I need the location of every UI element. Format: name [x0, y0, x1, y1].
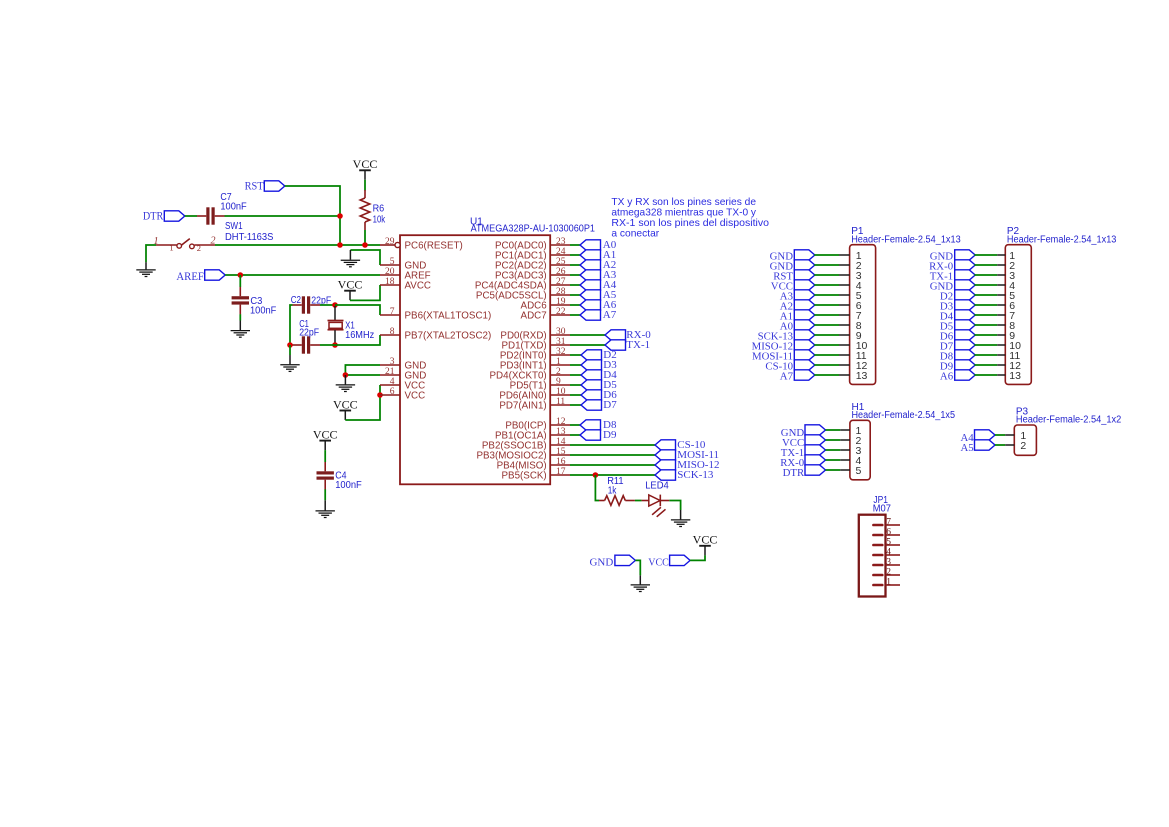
- label P1 Header-Female-2.54_1x13: [851, 226, 961, 245]
- wire SW1 to PC6 reset: [215, 244, 380, 246]
- net flag D5: [570, 379, 617, 391]
- wire C1 ground column: [289, 345, 291, 355]
- svg-text:Header-Female-2.54_1x5: Header-Female-2.54_1x5: [852, 410, 956, 421]
- ground C3: [231, 321, 250, 338]
- net flag TX-1 (P2 pin 3): [930, 270, 975, 283]
- junction crystal top: [332, 302, 338, 308]
- svg-text:9: 9: [556, 377, 561, 387]
- label SW1 DHT-1163S: [225, 221, 274, 243]
- svg-text:VCC: VCC: [693, 533, 718, 547]
- svg-text:14: 14: [556, 437, 566, 447]
- pin 7 JP1: [873, 518, 900, 528]
- net flag A4: [570, 279, 617, 291]
- net flag A1: [570, 249, 616, 261]
- svg-text:18: 18: [385, 277, 395, 287]
- svg-text:5: 5: [390, 257, 395, 267]
- svg-text:23: 23: [556, 237, 566, 247]
- label C2 22pF: [291, 295, 331, 306]
- net flag A0: [570, 239, 617, 251]
- svg-text:a conectar: a conectar: [611, 229, 659, 240]
- junction crystal bottom: [332, 342, 338, 348]
- wire H1 pin 5: [826, 469, 850, 471]
- svg-text:27: 27: [556, 277, 566, 287]
- wire P2 pin 5: [974, 294, 1005, 296]
- svg-text:6: 6: [390, 387, 395, 397]
- junction C1 left: [287, 342, 293, 348]
- pin 17 PB5(SCK) U1: [502, 467, 570, 481]
- wire SCK to R11: [595, 475, 599, 501]
- label R11 1k: [607, 476, 624, 497]
- wire AREF junction down: [239, 275, 241, 287]
- wire P3 pin 1: [995, 434, 1014, 436]
- svg-text:4: 4: [390, 377, 395, 387]
- capacitor C3: [232, 287, 249, 315]
- svg-text:A7: A7: [780, 371, 794, 383]
- power flag VCC (bottom): [693, 533, 718, 556]
- svg-text:M07: M07: [873, 504, 892, 515]
- label P2 Header-Female-2.54_1x13: [1007, 226, 1117, 245]
- pin 1 PD3(INT1) U1: [500, 357, 570, 371]
- crystal X1: [328, 306, 344, 344]
- pin 2 PD4(XCKT0) U1: [490, 367, 570, 381]
- net flag A4 (P3 pin 1): [960, 430, 995, 444]
- pin 25 PC2(ADC2) U1: [495, 257, 570, 271]
- net flag A3: [570, 269, 617, 281]
- label U1 ATMEGA328P-AU-1030060P1: [470, 217, 595, 235]
- svg-text:ATMEGA328P-AU-1030060P1: ATMEGA328P-AU-1030060P1: [471, 224, 596, 235]
- pin 13 PB1(OC1A) U1: [495, 427, 570, 441]
- pin 21 GND U1: [380, 367, 426, 381]
- pin 3 JP1: [873, 558, 900, 568]
- svg-text:13: 13: [556, 427, 566, 437]
- capacitor C7: [197, 207, 225, 224]
- wire P2 pin 3: [974, 274, 1005, 276]
- ground LED4: [671, 510, 690, 527]
- wire pin3 GND: [345, 365, 380, 375]
- net flag GND (bottom): [590, 555, 636, 569]
- label R6 10k: [373, 204, 386, 226]
- svg-text:4: 4: [886, 548, 891, 558]
- svg-text:32: 32: [556, 347, 566, 357]
- ground pins 3 21: [336, 375, 355, 392]
- wire H1 pin 1: [826, 429, 850, 431]
- label C7 100nF: [220, 192, 246, 212]
- net flag TX-1 (H1 pin 3): [781, 445, 826, 459]
- label C4 100nF: [335, 471, 362, 491]
- svg-text:2: 2: [1020, 440, 1026, 452]
- wire VCC to pins 4 6: [345, 385, 380, 420]
- net flag GND (H1 pin 1): [781, 425, 826, 439]
- svg-text:100nF: 100nF: [250, 305, 276, 316]
- svg-text:PB7(XTAL2TOSC2): PB7(XTAL2TOSC2): [405, 330, 492, 341]
- connector P1 body: [850, 245, 876, 385]
- svg-text:1: 1: [556, 357, 561, 367]
- pin 32 PD2(INT0) U1: [500, 347, 570, 361]
- pin 6 VCC U1: [380, 387, 425, 401]
- pin 5 GND U1: [380, 257, 426, 271]
- svg-text:AREF: AREF: [176, 271, 204, 283]
- wire P2 pin 9: [974, 334, 1005, 336]
- pin 27 PC4(ADC4SDA) U1: [475, 277, 570, 291]
- pin 1 JP1: [873, 578, 900, 588]
- net flag D7: [570, 399, 617, 411]
- net flag CS-10: [570, 439, 706, 451]
- svg-text:VCC: VCC: [648, 557, 669, 569]
- net flag MOSI-11 (P1 pin 11): [752, 350, 815, 363]
- junction C7/RST: [337, 213, 343, 219]
- net flag D3: [570, 359, 617, 371]
- svg-text:D9: D9: [603, 429, 617, 441]
- svg-text:22pF: 22pF: [299, 328, 319, 339]
- switch SW1: [156, 239, 215, 249]
- wire crystal bottom to PB7: [335, 335, 380, 345]
- net flag D5 (P2 pin 8): [940, 320, 975, 333]
- net flag AREF: [176, 270, 225, 283]
- svg-text:16MHz: 16MHz: [345, 330, 374, 341]
- svg-text:Header-Female-2.54_1x13: Header-Female-2.54_1x13: [1007, 234, 1117, 245]
- svg-text:26: 26: [556, 267, 566, 277]
- wire VCC to AVCC pin18: [350, 285, 380, 300]
- svg-text:6: 6: [886, 528, 891, 538]
- svg-text:TX y RX son los pines series d: TX y RX son los pines series de: [611, 197, 756, 208]
- label C1 22pF: [299, 319, 319, 338]
- net flag VCC (H1 pin 2): [782, 435, 826, 449]
- wire AREF to pin 20: [225, 274, 380, 276]
- svg-text:Header-Female-2.54_1x13: Header-Female-2.54_1x13: [851, 234, 961, 245]
- net flag D6 (P2 pin 9): [940, 330, 975, 343]
- capacitor C4: [317, 462, 334, 490]
- net flag A0 (P1 pin 8): [780, 320, 815, 333]
- svg-text:A5: A5: [960, 442, 973, 454]
- wire P2 pin 13: [974, 374, 1005, 376]
- wire H1 pin 4: [826, 459, 850, 461]
- pin 9 PD5(T1) U1: [510, 377, 570, 391]
- power flag VCC (C4): [313, 427, 338, 450]
- pin 18 AVCC U1: [380, 277, 431, 291]
- svg-text:DTR: DTR: [783, 467, 805, 479]
- svg-text:24: 24: [556, 247, 566, 257]
- connector P3 body: [1014, 425, 1036, 455]
- net flag D4 (P2 pin 7): [940, 310, 975, 323]
- net flag D9 (P2 pin 12): [940, 360, 975, 373]
- wire crystal top to PB6: [335, 305, 380, 315]
- connector H1 body: [850, 420, 870, 480]
- svg-text:1: 1: [169, 243, 173, 253]
- svg-text:DTR: DTR: [143, 211, 164, 223]
- svg-text:100nF: 100nF: [220, 201, 246, 212]
- svg-text:19: 19: [556, 297, 566, 307]
- power flag VCC (pins 4 6): [333, 397, 358, 420]
- wire P1 pin 9: [814, 334, 849, 336]
- pin 20 AREF U1: [380, 267, 431, 281]
- pin 5 JP1: [873, 538, 900, 548]
- wire C3 to ground: [239, 314, 241, 320]
- svg-text:15: 15: [556, 447, 566, 457]
- ground pin5: [341, 250, 360, 267]
- LED LED4: [642, 495, 670, 517]
- pin 3 GND U1: [380, 357, 426, 371]
- svg-text:13: 13: [856, 370, 868, 382]
- net flag MISO-12 (P1 pin 10): [752, 340, 815, 353]
- svg-text:28: 28: [556, 287, 566, 297]
- wire R11 to LED4: [635, 500, 642, 502]
- svg-text:11: 11: [556, 397, 565, 407]
- wire H1 pin 2: [826, 439, 850, 441]
- net flag RST (P1 pin 3): [773, 270, 815, 283]
- net flag VCC (P1 pin 4): [771, 280, 815, 293]
- wire P1 pin 3: [814, 274, 849, 276]
- svg-text:TX-1: TX-1: [626, 339, 650, 351]
- pin 19 ADC6 U1: [521, 297, 570, 311]
- svg-text:R6: R6: [373, 204, 385, 215]
- svg-text:ADC7: ADC7: [521, 310, 547, 321]
- wire GND flag to ground: [635, 560, 640, 575]
- wire P1 pin 10: [814, 344, 849, 346]
- label P3 Header-Female-2.54_1x2: [1016, 407, 1122, 426]
- svg-text:10k: 10k: [373, 214, 386, 225]
- wire P2 pin 1: [974, 254, 1005, 256]
- svg-text:PD7(AIN1): PD7(AIN1): [499, 400, 546, 411]
- junction AREF C3: [238, 272, 244, 278]
- net flag MOSI-11: [570, 449, 719, 461]
- label X1 16MHz: [345, 320, 374, 341]
- wire P2 pin 6: [974, 304, 1005, 306]
- svg-text:100nF: 100nF: [335, 480, 362, 491]
- pin 24 PC1(ADC1) U1: [495, 247, 570, 261]
- wire P2 pin 4: [974, 284, 1005, 286]
- svg-text:2: 2: [211, 235, 216, 246]
- wire P1 pin 12: [814, 364, 849, 366]
- wire R6 to reset net: [364, 230, 366, 245]
- wire VCC to R6: [364, 180, 366, 191]
- pin 11 PD7(AIN1) U1: [499, 397, 570, 411]
- power flag VCC (R6 pull-up): [353, 157, 378, 180]
- net flag A1 (P1 pin 7): [780, 310, 815, 323]
- svg-text:VCC: VCC: [313, 427, 338, 441]
- pin 12 PB0(ICP) U1: [505, 417, 570, 431]
- label C3 100nF: [250, 296, 276, 316]
- net flag RX-0 (P2 pin 2): [929, 260, 975, 273]
- net flag A5 (P3 pin 2): [960, 440, 995, 454]
- wire P2 pin 11: [974, 354, 1005, 356]
- ground GND flag: [631, 575, 650, 591]
- svg-text:A7: A7: [603, 309, 617, 321]
- pin 8 PB7(XTAL2TOSC2) U1: [380, 327, 491, 341]
- svg-text:31: 31: [556, 337, 566, 347]
- net flag RX-0 (H1 pin 4): [780, 455, 825, 469]
- svg-text:21: 21: [385, 367, 395, 377]
- svg-text:16: 16: [556, 457, 566, 467]
- svg-text:VCC: VCC: [353, 157, 378, 171]
- pin 26 PC3(ADC3) U1: [495, 267, 570, 281]
- wire P2 pin 2: [974, 264, 1005, 266]
- wire C7 to reset vertical: [225, 215, 341, 217]
- net flag D2 (P2 pin 5): [940, 290, 975, 303]
- wire LED4 to ground: [669, 501, 680, 511]
- svg-text:RX-1 son los pines del disposi: RX-1 son los pines del dispositivo: [611, 218, 769, 229]
- svg-text:VCC: VCC: [333, 397, 358, 411]
- junction GND pins: [343, 372, 349, 378]
- junction VCC pin6: [377, 392, 383, 398]
- net flag MISO-12: [570, 459, 719, 471]
- svg-text:LED4: LED4: [645, 481, 669, 492]
- net flag D6: [570, 389, 617, 401]
- wire pin21 GND: [345, 374, 380, 376]
- wire P1 pin 4: [814, 284, 849, 286]
- svg-text:SCK-13: SCK-13: [677, 469, 714, 481]
- net flag A6 (P2 pin 13): [940, 370, 975, 383]
- pin 31 PD1(TXD) U1: [502, 337, 570, 351]
- net flag GND (P2 pin 1): [930, 250, 976, 263]
- wire P1 pin 8: [814, 324, 849, 326]
- svg-text:PB6(XTAL1TOSC1): PB6(XTAL1TOSC1): [405, 310, 492, 321]
- net flag D8: [570, 419, 617, 431]
- svg-text:5: 5: [856, 465, 862, 477]
- pin 30 PD0(RXD) U1: [500, 327, 570, 341]
- svg-text:20: 20: [385, 267, 395, 277]
- wire P2 pin 10: [974, 344, 1005, 346]
- net flag TX-1: [570, 339, 650, 351]
- wire P1 pin 6: [814, 304, 849, 306]
- wire VCC flag to power: [690, 555, 705, 560]
- wire P1 pin 11: [814, 354, 849, 356]
- wire P1 pin 5: [814, 294, 849, 296]
- capacitor C1: [293, 336, 321, 353]
- capacitor C2: [293, 296, 321, 313]
- IC U1 body: [400, 235, 550, 484]
- net flag A3 (P1 pin 5): [780, 290, 815, 303]
- pin 15 PB3(MOSIOC2) U1: [476, 447, 570, 461]
- svg-text:5: 5: [886, 538, 891, 548]
- svg-text:AVCC: AVCC: [405, 280, 432, 291]
- svg-text:A6: A6: [940, 371, 954, 383]
- wire P2 pin 7: [974, 314, 1005, 316]
- wire RST to vertical: [285, 186, 340, 245]
- svg-text:2: 2: [197, 243, 201, 253]
- svg-text:PC6(RESET): PC6(RESET): [405, 240, 463, 251]
- net flag RST: [245, 181, 285, 193]
- net flag A2: [570, 259, 616, 271]
- net flag A7 (P1 pin 13): [780, 370, 815, 383]
- pin 4 JP1: [873, 548, 900, 558]
- svg-text:VCC: VCC: [338, 278, 363, 292]
- junction SCK LED branch: [593, 472, 599, 478]
- power flag VCC (AVCC): [338, 278, 363, 301]
- net flag D7 (P2 pin 10): [940, 340, 975, 353]
- svg-text:atmega328 mientras que TX-0 y: atmega328 mientras que TX-0 y: [611, 208, 756, 219]
- connector JP1 body: [859, 515, 886, 597]
- pin 29 PC6(RESET) U1: [380, 237, 463, 251]
- pin 23 PC0(ADC0) U1: [495, 237, 570, 251]
- net flag D4: [570, 369, 617, 381]
- svg-text:13: 13: [1009, 370, 1021, 382]
- pin 14 PB2(SSOC1B) U1: [482, 437, 570, 451]
- net flag SCK-13 (P1 pin 9): [758, 330, 815, 343]
- net flag CS-10 (P1 pin 12): [765, 360, 814, 373]
- svg-text:12: 12: [556, 417, 566, 427]
- svg-text:17: 17: [556, 467, 566, 477]
- label JP1 M07: [873, 495, 892, 514]
- svg-text:1: 1: [886, 578, 891, 588]
- note text TX RX: [611, 197, 769, 240]
- wire H1 pin 3: [826, 449, 850, 451]
- net flag SCK-13: [570, 469, 714, 481]
- svg-text:3: 3: [390, 357, 395, 367]
- resistor R11: [599, 496, 635, 506]
- svg-text:7: 7: [886, 518, 891, 528]
- wire P1 pin 7: [814, 314, 849, 316]
- wire P1 pin 1: [814, 254, 849, 256]
- svg-text:22: 22: [556, 307, 566, 317]
- svg-text:SW1: SW1: [225, 221, 243, 232]
- svg-text:7: 7: [390, 307, 395, 317]
- net flag D2: [570, 349, 617, 361]
- pin 2 JP1: [873, 568, 900, 578]
- svg-text:Header-Female-2.54_1x2: Header-Female-2.54_1x2: [1016, 415, 1122, 426]
- wire C4 to ground: [324, 489, 326, 500]
- wire P1 pin 13: [814, 374, 849, 376]
- svg-text:8: 8: [390, 327, 395, 337]
- junction reset vertical: [337, 242, 343, 248]
- svg-text:GND: GND: [590, 557, 614, 569]
- svg-text:DHT-1163S: DHT-1163S: [225, 232, 274, 243]
- svg-text:RST: RST: [245, 181, 264, 193]
- net flag GND (P1 pin 2): [770, 260, 815, 273]
- svg-text:D7: D7: [603, 399, 617, 411]
- wire VCC to C4: [324, 450, 326, 462]
- net flag GND (P2 pin 4): [930, 280, 976, 293]
- resistor R6: [360, 190, 370, 230]
- ground SW1: [136, 262, 155, 276]
- net flag GND (P1 pin 1): [770, 250, 815, 263]
- net flag A7: [570, 309, 617, 321]
- svg-text:1k: 1k: [608, 486, 618, 497]
- junction reset R6: [362, 242, 368, 248]
- svg-text:25: 25: [556, 257, 566, 267]
- net flag VCC (bottom): [648, 555, 690, 569]
- label H1 Header-Female-2.54_1x5: [852, 402, 956, 421]
- svg-text:10: 10: [556, 387, 566, 397]
- net flag D3 (P2 pin 6): [940, 300, 975, 313]
- wire P2 pin 8: [974, 324, 1005, 326]
- svg-text:VCC: VCC: [405, 390, 426, 401]
- net flag A6: [570, 299, 617, 311]
- wire C2 right to crystal top: [320, 304, 335, 306]
- ground C1 C2: [280, 355, 299, 371]
- pin 22 ADC7 U1: [521, 307, 570, 321]
- net flag D8 (P2 pin 11): [940, 350, 975, 363]
- ground C4: [316, 500, 335, 517]
- wire P1 pin 2: [814, 264, 849, 266]
- wire P2 pin 12: [974, 364, 1005, 366]
- wire P3 pin 2: [995, 444, 1014, 446]
- net flag D9: [570, 429, 617, 441]
- svg-text:2: 2: [886, 568, 891, 578]
- wire C1 to crystal bottom: [320, 344, 335, 346]
- wire pin5 GND: [350, 250, 380, 265]
- net flag A5: [570, 289, 617, 301]
- pin 16 PB4(MISO) U1: [497, 457, 570, 471]
- wire SW1 left to ground: [146, 245, 156, 262]
- pin 7 PB6(XTAL1TOSC1) U1: [380, 307, 491, 321]
- connector P2 body: [1005, 245, 1031, 385]
- pin 10 PD6(AIN0) U1: [499, 387, 570, 401]
- svg-text:3: 3: [886, 558, 891, 568]
- wire DTR to C7: [185, 215, 197, 217]
- net flag A2 (P1 pin 6): [780, 300, 815, 313]
- pin 28 PC5(ADC5SCL) U1: [476, 287, 570, 301]
- wire C2 left down to C1: [290, 305, 293, 345]
